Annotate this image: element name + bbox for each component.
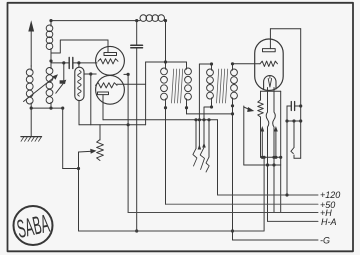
switch blades <box>193 149 197 167</box>
svg-text:-G: -G <box>320 235 330 245</box>
V1 waist lead left <box>85 73 97 75</box>
V1 plate/grid-cap rect <box>104 53 117 56</box>
R3 wiper arrow <box>244 107 249 109</box>
tube V2 envelope <box>255 39 284 91</box>
wire to +H rail (heater) <box>273 165 275 213</box>
V1 grid zigzag (lower) <box>96 83 118 88</box>
antenna coupling coil L1 <box>49 19 52 22</box>
heater junction row 1 <box>261 156 281 158</box>
wire T2 left bottom <box>204 107 212 147</box>
V2 grid zigzag <box>260 61 278 66</box>
wire V1 anode to T1 top <box>145 62 147 125</box>
R2 wiper arm <box>78 152 80 169</box>
V1 cathode bar <box>98 92 109 95</box>
ground bus <box>79 230 265 232</box>
trimmer capacitor C2 <box>63 63 65 81</box>
wire coil bottoms bus <box>31 107 63 109</box>
rail H-A <box>268 220 319 222</box>
SABA logo <box>14 206 53 245</box>
capacitor C3 (on antenna line) <box>135 19 138 22</box>
transformer T2 right coil <box>231 62 234 65</box>
wire antenna top to RF choke <box>51 20 140 22</box>
RF choke L2 <box>140 15 165 22</box>
V1 waist lead right <box>124 73 128 75</box>
rail labels <box>320 190 340 245</box>
wire T2 right bottom down to -G <box>232 106 234 240</box>
long wire C3 bottom to ground bus <box>136 48 138 231</box>
T1 core <box>172 69 183 103</box>
V2 plate <box>263 49 276 52</box>
wire line B (cathode bias node) <box>79 124 146 126</box>
resistor R3 (filament rheostat) <box>258 100 264 117</box>
rail +H <box>128 212 318 214</box>
node row <box>287 120 301 122</box>
V2 heater leads (wavy) <box>267 88 269 113</box>
svg-text:+120: +120 <box>320 190 340 200</box>
T2 core <box>217 69 228 103</box>
tube V1 envelope <box>96 46 125 75</box>
wire T2 right top to V2 grid <box>233 63 261 65</box>
wire wiper node down to ground bus <box>78 169 80 232</box>
tone switch <box>293 121 295 148</box>
wire from coil bus down to wiper node <box>62 108 64 168</box>
V2 anode wire to C5 <box>270 28 300 30</box>
grid line node <box>51 62 69 64</box>
switch arrows <box>198 145 202 150</box>
capacitor C1 (grid coupling) <box>68 58 70 69</box>
heater switch arrows <box>260 126 264 132</box>
V2 base <box>261 90 281 92</box>
capacitor C5 <box>290 102 292 111</box>
wire step from L1 bottom to tube V1 grid cap <box>51 40 108 53</box>
band switch contacts <box>194 118 197 121</box>
transformer T1 right coil <box>186 62 188 65</box>
svg-text:H-A: H-A <box>321 217 337 227</box>
rail +50 <box>166 203 319 205</box>
ground <box>30 108 32 137</box>
potentiometer R2 <box>99 125 101 140</box>
wire choke to T1 <box>165 21 167 62</box>
rail -G <box>233 239 319 241</box>
V2 filament circle <box>264 76 276 89</box>
wire base right to +H rail <box>280 91 282 212</box>
anode bus wire <box>103 119 218 121</box>
heater junction row 2 <box>244 164 281 166</box>
wire T1 right bottom link <box>186 108 188 114</box>
wire T2 left top to switch <box>199 63 211 65</box>
wire T1 left bottom to +50 rail <box>165 108 167 205</box>
tuning coil L3 <box>30 65 32 67</box>
V1 grid zigzag (upper) <box>98 59 118 64</box>
wire C5 left to +120 rail <box>286 106 288 195</box>
transformer T2 left coil <box>210 62 213 65</box>
variometer arrow through L3/L4 <box>24 77 55 102</box>
secondary coil L4 <box>50 53 52 66</box>
rail +120 <box>218 194 319 196</box>
wire to ground bus (right) <box>263 157 265 231</box>
transformer T1 left coil <box>165 62 167 65</box>
antenna arrow <box>30 30 32 66</box>
wire to H-A rail <box>267 165 269 221</box>
grid leak resistor R1 (pill style) <box>78 63 80 67</box>
